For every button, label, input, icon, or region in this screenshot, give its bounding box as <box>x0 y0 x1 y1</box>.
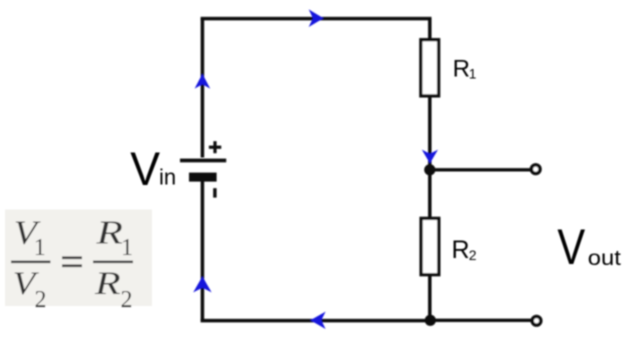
wire output tap upper <box>430 168 532 171</box>
svg-text:R: R <box>95 214 123 252</box>
svg-text:1: 1 <box>34 235 46 261</box>
label V_out <box>557 218 585 275</box>
svg-text:R: R <box>452 236 470 264</box>
battery plus sign <box>209 141 221 153</box>
wire output tap lower <box>430 319 532 322</box>
formula fraction bar right <box>93 261 133 264</box>
formula numerator R1 <box>95 214 123 252</box>
wire bottom (bottom-left corner to bottom node) <box>201 319 431 323</box>
wire left lower (battery - plate down to bottom corner) <box>201 181 205 321</box>
current arrow left (bottom wire) <box>310 312 325 329</box>
current arrow up (left wire upper) <box>195 74 211 89</box>
formula equals sign <box>62 256 82 259</box>
formula denominator R2 <box>94 265 121 302</box>
terminal upper (open circle) <box>531 165 540 174</box>
label V_in <box>130 142 160 196</box>
wire top (node top-left to top-right) <box>201 17 432 21</box>
current arrow down (into middle node) <box>422 150 438 164</box>
wire R2 to bottom node <box>428 274 432 321</box>
svg-text:2: 2 <box>35 287 47 313</box>
formula denominator V2 <box>13 265 39 302</box>
terminal lower (open circle) <box>532 317 541 326</box>
svg-text:V: V <box>557 218 585 275</box>
svg-text:out: out <box>588 246 621 270</box>
current arrow right (top wire) <box>309 9 324 27</box>
formula background panel <box>5 210 152 307</box>
wire left upper (top corner down to battery + plate) <box>201 18 205 157</box>
battery V_in negative plate <box>189 173 217 182</box>
svg-text:1: 1 <box>469 66 477 81</box>
formula fraction bar left <box>11 261 51 264</box>
svg-text:R: R <box>453 56 470 83</box>
svg-text:1: 1 <box>121 235 133 261</box>
junction node bottom <box>425 315 436 326</box>
current arrow up (left wire lower) <box>193 276 211 292</box>
resistor R2 body <box>421 218 439 274</box>
resistor R1 body <box>421 40 439 96</box>
wire R1 to middle node <box>428 96 432 167</box>
wire right upper (top corner to R1) <box>428 18 432 41</box>
svg-text:R: R <box>94 265 121 302</box>
wire middle node to R2 <box>428 170 432 220</box>
svg-text:in: in <box>159 165 176 190</box>
formula numerator V1 <box>14 213 41 251</box>
battery minus tick <box>213 188 216 197</box>
svg-text:2: 2 <box>121 287 133 313</box>
battery V_in positive plate <box>180 159 226 163</box>
svg-text:V: V <box>130 142 160 196</box>
svg-text:2: 2 <box>469 247 477 263</box>
junction node middle <box>424 164 435 175</box>
